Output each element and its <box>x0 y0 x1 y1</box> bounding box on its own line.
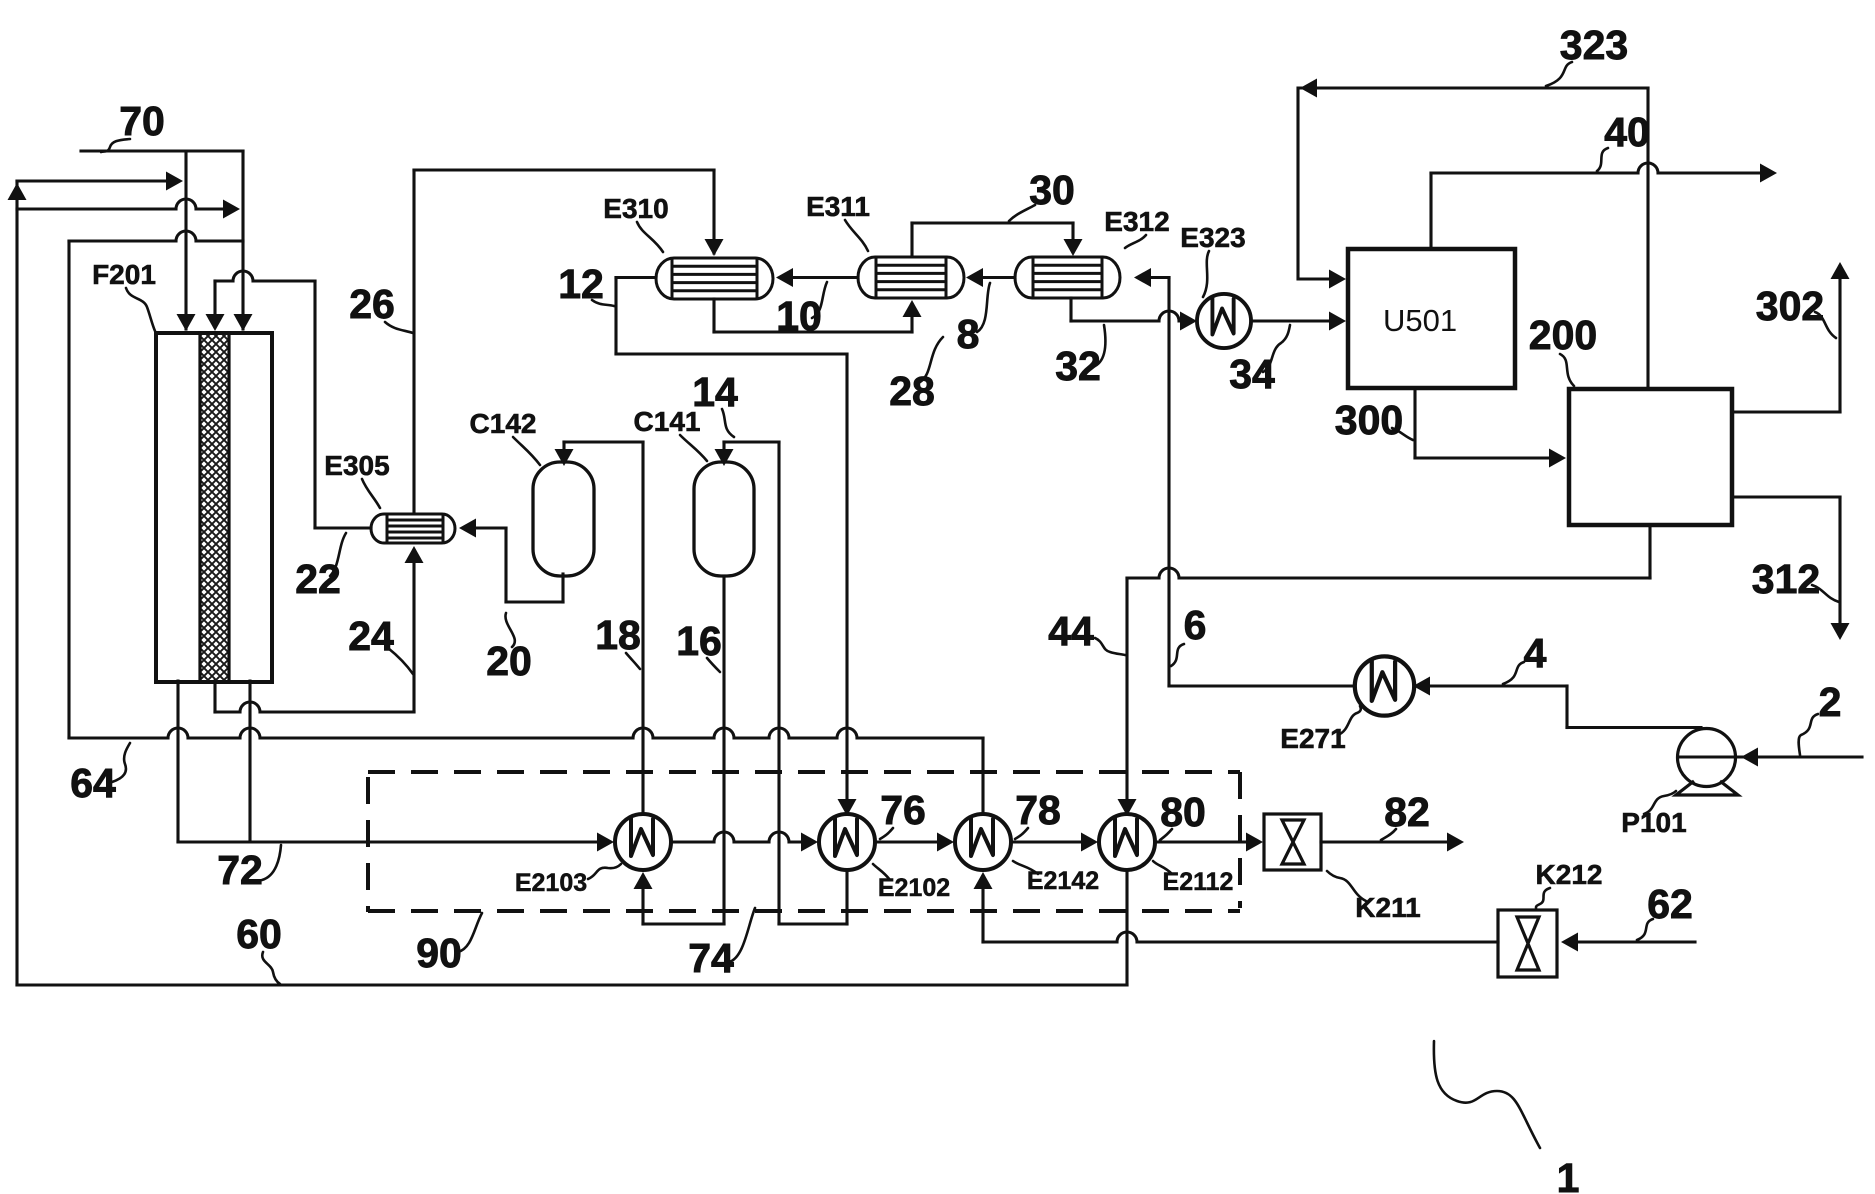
arrow into E312 right <box>1134 268 1151 287</box>
wire 20 C142 bottom stub <box>561 574 564 602</box>
arrow up at top of line 60 riser <box>8 183 27 200</box>
svg-text:90: 90 <box>416 930 462 976</box>
leader E311 <box>845 220 868 251</box>
svg-text:70: 70 <box>119 98 165 144</box>
svg-text:E310: E310 <box>603 193 668 224</box>
wire 26 drop into E310 <box>712 170 715 253</box>
svg-text:22: 22 <box>295 556 341 602</box>
svg-text:F201: F201 <box>92 259 156 290</box>
leader 28 <box>920 337 943 382</box>
svg-text:76: 76 <box>880 787 926 833</box>
svg-text:44: 44 <box>1048 608 1094 654</box>
svg-text:20: 20 <box>486 638 532 684</box>
leader 90 <box>458 913 482 952</box>
svg-text:60: 60 <box>236 911 282 957</box>
arrow 24 into E305 bottom <box>405 546 424 563</box>
wire E2142 bottom riser <box>981 884 984 942</box>
leader E323 <box>1203 251 1209 297</box>
wire 8 <box>979 276 1015 279</box>
wire 12 run <box>616 352 847 355</box>
svg-text:E2103: E2103 <box>515 869 587 897</box>
wire 312 drop <box>1838 497 1841 625</box>
svg-text:C142: C142 <box>470 408 537 439</box>
wire 22 into E305 left <box>315 526 371 529</box>
leader 300 <box>1392 428 1413 440</box>
wire train E2103 to E2102 <box>671 832 806 842</box>
svg-text:6: 6 <box>1184 602 1207 648</box>
wire E2103 to C142 run <box>564 440 643 443</box>
svg-text:C141: C141 <box>634 406 701 437</box>
svg-text:300: 300 <box>1335 397 1403 443</box>
leader 6 <box>1171 644 1184 666</box>
wire 60 upper branch <box>17 179 168 182</box>
leader 8 <box>977 283 990 332</box>
svg-text:74: 74 <box>688 935 734 981</box>
wire C141 top feed <box>722 442 725 452</box>
wire 60 E2112 bottom drop <box>1125 870 1128 985</box>
wire into furnace left port <box>184 151 187 329</box>
dashed box 90 <box>368 772 1240 912</box>
vessel C141 <box>694 462 754 576</box>
unit U501 box <box>1348 249 1515 388</box>
wire E2102 bottom stub <box>845 870 848 924</box>
wire 14 run <box>724 440 779 443</box>
arrow into E323 <box>1180 312 1197 331</box>
leader 10 <box>812 282 827 318</box>
leader E271 <box>1338 706 1361 735</box>
wire 60 riser left <box>15 181 18 985</box>
wire 4 step <box>1565 686 1568 728</box>
wire 44 run <box>1127 568 1650 578</box>
valve K212 <box>1498 910 1557 977</box>
arrow 4 into E271 right <box>1413 677 1430 696</box>
arrow down into furnace port 3 <box>234 314 253 331</box>
wire 14 riser <box>777 442 780 924</box>
arrow into E310 top <box>705 239 724 256</box>
leader E312 <box>1125 235 1146 248</box>
arrow 40 out <box>1760 164 1777 183</box>
arrow into E2142 bottom <box>974 872 993 889</box>
wire 34 E323 to U501 <box>1252 319 1331 322</box>
svg-text:40: 40 <box>1604 109 1650 155</box>
leader 60 <box>262 952 280 984</box>
wire 72 furnace left downcomer <box>176 681 179 842</box>
svg-text:30: 30 <box>1029 167 1075 213</box>
svg-text:78: 78 <box>1015 787 1061 833</box>
wire furnace right downcomer <box>248 681 251 842</box>
leader 20 <box>505 613 514 647</box>
leader 200 <box>1560 354 1574 386</box>
leader 78 <box>1015 828 1028 839</box>
wire 44 drop into E2112 <box>1125 578 1128 802</box>
wire 312 run <box>1732 495 1840 498</box>
wire 20 run <box>506 600 563 603</box>
svg-text:28: 28 <box>889 368 935 414</box>
svg-text:E271: E271 <box>1280 723 1345 754</box>
wire E2102 bottom run <box>779 922 847 925</box>
wire 20 riser <box>504 528 507 602</box>
leader E2142 <box>1013 861 1038 874</box>
wire 22 run <box>215 271 315 281</box>
wire 60 lower branch <box>17 199 224 209</box>
wire 6 run to E271 <box>1169 684 1354 687</box>
leader 80 <box>1160 829 1172 840</box>
wire 16 riser into E2103 <box>641 884 644 924</box>
wire 40 run <box>1431 163 1762 173</box>
wire 12 drop into E2102 <box>845 354 848 803</box>
svg-text:E312: E312 <box>1104 206 1169 237</box>
wire 30 run <box>912 221 1073 224</box>
arrow 302 up <box>1831 262 1850 279</box>
wire 323 loop <box>1298 88 1648 279</box>
wire 64 drop into E2142 top <box>981 738 984 814</box>
wire 60 bottom run <box>17 983 1127 986</box>
exchanger E323 <box>1197 294 1251 348</box>
svg-text:18: 18 <box>595 612 641 658</box>
svg-text:80: 80 <box>1160 789 1206 835</box>
leader E2112 <box>1153 861 1172 874</box>
leader C141 <box>680 435 707 461</box>
furnace F201 <box>156 333 272 682</box>
arrow 44 into E2112 top <box>1118 799 1137 816</box>
heat exchanger E305 <box>371 514 455 543</box>
wire train E2142 to E2112 <box>1011 840 1084 843</box>
wire 10 <box>789 276 858 279</box>
leader 76 <box>880 828 893 839</box>
wire from K212 to E2142 <box>983 932 1498 942</box>
wire 26 riser from E305 top <box>412 170 415 514</box>
arrow into left furnace riser junction <box>166 172 183 191</box>
wire 22 furnace feed <box>213 281 216 317</box>
leader 312 <box>1812 585 1839 602</box>
leader E2103 <box>588 864 621 879</box>
leader C142 <box>513 437 540 465</box>
svg-text:E311: E311 <box>806 191 870 222</box>
arrow into C142 top <box>555 449 574 466</box>
leader E310 <box>637 222 663 252</box>
vessel C142 <box>533 462 594 576</box>
wire into furnace right port <box>241 151 244 329</box>
arrow 62 into K212 <box>1561 933 1578 952</box>
leader 62 <box>1637 919 1653 940</box>
svg-text:14: 14 <box>692 369 738 415</box>
svg-text:72: 72 <box>217 847 263 893</box>
leader 64 <box>112 743 130 782</box>
leader 12 <box>592 300 614 306</box>
arrow 76 into E2102 left <box>801 833 818 852</box>
arrow left at 323 corner <box>1300 79 1317 98</box>
wire 20 into E305 right <box>473 526 506 529</box>
arrowheads <box>8 79 1850 952</box>
svg-text:323: 323 <box>1560 22 1628 68</box>
svg-text:312: 312 <box>1752 556 1820 602</box>
wire 300 run <box>1415 456 1551 459</box>
svg-text:64: 64 <box>70 760 116 806</box>
arrow 300 into box 200 <box>1549 449 1566 468</box>
leader 22 <box>330 533 346 576</box>
wire 4 to P101 <box>1567 726 1701 729</box>
svg-text:24: 24 <box>348 613 394 659</box>
svg-text:16: 16 <box>676 618 722 664</box>
wire 28 E310 bottom stub <box>712 299 715 332</box>
wire 82 out of K211 <box>1321 840 1450 843</box>
svg-text:12: 12 <box>558 261 604 307</box>
wire 24 riser to E305 <box>412 558 415 712</box>
arrow 72 into E2103 left <box>597 833 614 852</box>
exchanger E271 <box>1355 656 1414 715</box>
svg-text:2: 2 <box>1819 679 1842 725</box>
svg-text:34: 34 <box>1229 351 1275 397</box>
leader 70 <box>101 139 130 152</box>
wire 64 bottom run <box>69 728 983 738</box>
svg-text:1: 1 <box>1557 1155 1580 1194</box>
wire 44 stub from box 200 <box>1648 525 1651 578</box>
exchanger E2112 <box>1099 814 1155 870</box>
wire 4 from E271 <box>1428 684 1567 687</box>
svg-text:U501: U501 <box>1383 303 1457 338</box>
svg-text:P101: P101 <box>1621 807 1686 838</box>
arrow 78 into E2112 left <box>1081 833 1098 852</box>
wire 302 riser <box>1838 277 1841 412</box>
wire 6 riser <box>1167 278 1170 687</box>
wire train E2112 to K211 <box>1155 840 1249 843</box>
leader 4 <box>1503 662 1524 684</box>
wire 72 run to E2103 <box>178 840 601 843</box>
leader E305 <box>362 479 380 508</box>
svg-text:82: 82 <box>1384 789 1430 835</box>
svg-text:E2112: E2112 <box>1163 868 1234 896</box>
wire 30 drop into E312 <box>1071 223 1074 242</box>
wire 2 <box>1679 755 1862 758</box>
leader 26 <box>385 322 413 333</box>
leader 72 <box>262 845 281 880</box>
leader 302 <box>1815 312 1836 338</box>
leader 24 <box>388 648 413 674</box>
wire 28 run <box>714 330 912 333</box>
wire 24 stub from furnace <box>213 681 216 712</box>
wire 16 bottom run <box>643 922 724 925</box>
wire 28 riser into E311 <box>910 313 913 332</box>
svg-text:302: 302 <box>1756 283 1824 329</box>
wire 24 run <box>215 702 414 712</box>
svg-text:8: 8 <box>957 311 980 357</box>
arrow 80 into K211 <box>1246 833 1263 852</box>
heat exchanger E311 <box>858 257 964 298</box>
exchanger E2103 <box>615 814 671 870</box>
wire 16 C141 bottom drop <box>722 576 725 924</box>
arrow 12 into E2102 top <box>838 799 857 816</box>
leader 34 <box>1263 325 1290 372</box>
wire 12 from E310 <box>616 276 656 279</box>
wire 323 drop to box 200 <box>1646 88 1649 389</box>
wire 26 top run <box>414 168 714 171</box>
leader K211 <box>1327 871 1366 901</box>
arrow into E311 bottom <box>903 300 922 317</box>
arrow 82 out <box>1447 833 1464 852</box>
valve K211 <box>1264 814 1321 870</box>
arrow into E312 top <box>1064 239 1083 256</box>
arrow into right furnace riser junction <box>223 200 240 219</box>
wire 302 run <box>1732 410 1840 413</box>
leader 323 <box>1546 62 1572 86</box>
leader 30 <box>1009 205 1035 221</box>
arrow into U501 upper <box>1329 270 1346 289</box>
arrow 20 into E305 right <box>459 519 476 538</box>
wire 64 top run <box>69 231 243 241</box>
leader 2 <box>1799 714 1818 755</box>
wire 6 into E312 <box>1147 276 1169 279</box>
arrow 16 into E2103 bottom <box>634 872 653 889</box>
wire 300 drop <box>1413 388 1416 458</box>
arrow 2 into P101 <box>1741 748 1758 767</box>
exchanger E2142 <box>955 814 1011 870</box>
leader 44 <box>1095 638 1125 655</box>
wire 70 top feed line <box>81 149 243 152</box>
leader 40 <box>1597 148 1608 171</box>
wire 62 <box>1575 940 1695 943</box>
arrow into E311 right <box>966 268 983 287</box>
svg-text:E323: E323 <box>1180 222 1245 253</box>
arrow down into furnace port 1 <box>177 314 196 331</box>
svg-text:K211: K211 <box>1355 892 1420 923</box>
leader E2102 <box>873 864 890 880</box>
leader 32 <box>1093 325 1105 367</box>
svg-text:26: 26 <box>349 281 395 327</box>
pump P101 <box>1676 729 1738 796</box>
svg-text:4: 4 <box>1524 630 1547 676</box>
leader F201 <box>126 288 155 331</box>
leader 74 <box>729 908 755 962</box>
wire 32 run to E323 <box>1071 311 1182 321</box>
wire E2103 top riser <box>641 442 644 814</box>
unit 200 box <box>1569 389 1732 525</box>
leader 14 <box>722 409 734 437</box>
arrow down into furnace port 2 <box>206 314 225 331</box>
wire C142 top feed <box>562 442 565 452</box>
leader 1 big squiggle <box>1434 1041 1540 1148</box>
svg-text:E2142: E2142 <box>1027 867 1099 895</box>
arrow 312 down <box>1831 623 1850 640</box>
wire 64 left riser <box>67 241 70 738</box>
svg-text:62: 62 <box>1647 881 1693 927</box>
heat exchanger E312 <box>1015 257 1120 298</box>
svg-text:200: 200 <box>1529 312 1597 358</box>
wire 22 drop <box>313 281 316 528</box>
leader K212 <box>1536 888 1550 908</box>
arrow into U501 mid <box>1329 312 1346 331</box>
leader 16 <box>707 658 720 672</box>
wire train E2102 to E2142 <box>875 840 940 843</box>
leader 82 <box>1381 829 1396 840</box>
wire 40 U501 top stub <box>1429 173 1432 249</box>
svg-text:E305: E305 <box>324 450 389 481</box>
wire 12 drop <box>614 278 617 355</box>
heat exchanger E310 <box>656 258 773 299</box>
exchanger E2102 <box>819 814 875 870</box>
svg-text:K212: K212 <box>1536 859 1603 890</box>
arrow into C141 top <box>715 449 734 466</box>
wire 30 E311 top stub <box>910 223 913 256</box>
leader 18 <box>626 653 640 669</box>
leader P101 <box>1644 791 1676 814</box>
arrow 76 into E2142 left <box>937 833 954 852</box>
arrow into E310 right <box>776 268 793 287</box>
wire 32 E312 bottom stub <box>1069 298 1072 321</box>
